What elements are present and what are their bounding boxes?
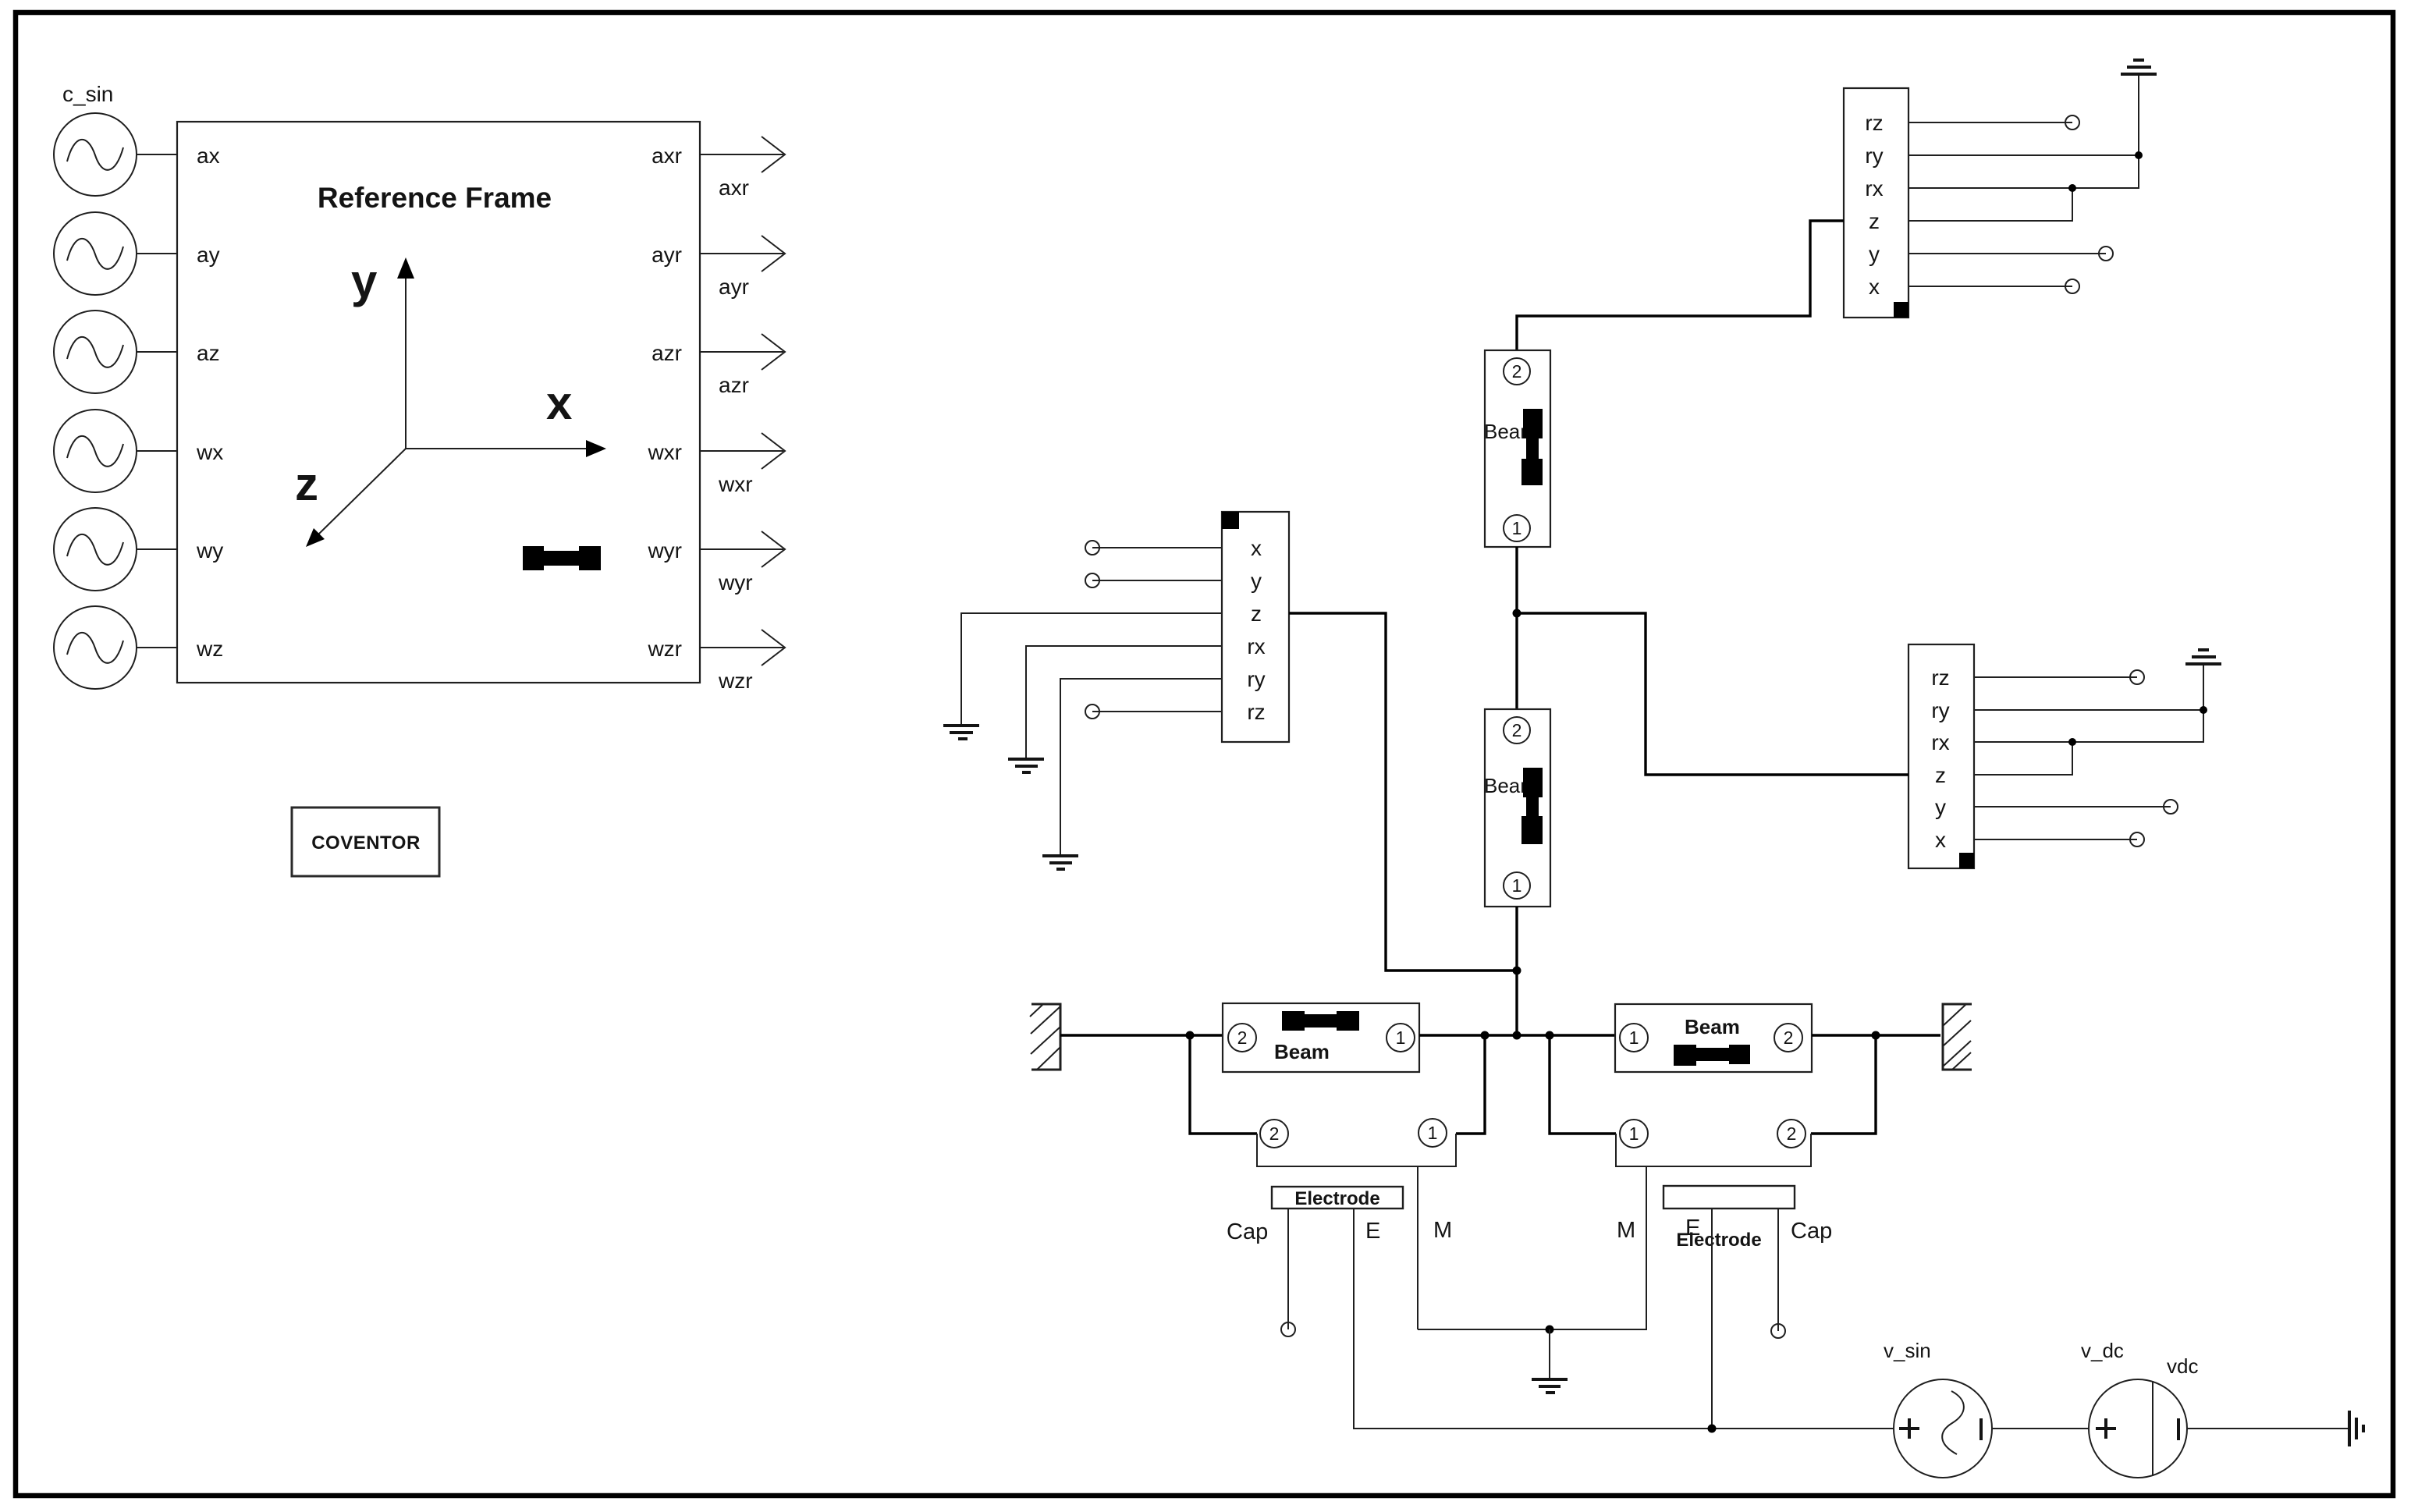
junction ry/rx U1 [2135,151,2143,159]
svg-text:z: z [1935,763,1946,787]
terminal y U3 [1085,573,1099,587]
svg-text:Beam: Beam [1685,1015,1740,1038]
wire anchor to beam B3 [1060,1034,1223,1036]
svg-text:2: 2 [1512,361,1522,382]
value label (redacted) B2 [1521,768,1543,844]
svg-text:wz: wz [196,637,223,661]
pin 1 beam B2 [1504,872,1530,899]
output arrow ayr [700,236,785,272]
wire U1 rx up to ry node [1908,76,2139,188]
svg-text:M: M [1433,1218,1452,1243]
wire E1 pin1 drop [1456,1035,1485,1134]
wire U3 z pin right to center node [1289,613,1517,971]
output arrow wxr [700,433,785,469]
pin 1 electrode E2 [1620,1120,1648,1148]
svg-text:2: 2 [1512,720,1522,740]
wire U1 x to terminal [1908,286,2072,287]
ground GND2 (inverted, top) [2185,650,2221,664]
electrode E1 movable plate [1257,1134,1456,1166]
junction E net [1708,1425,1717,1433]
junction z/rx U2 [2068,738,2076,746]
wire beam B1 top to U1 z pin [1517,221,1844,350]
wire ay source to Reference Frame [137,253,177,254]
svg-text:rz: rz [1931,665,1949,690]
svg-text:x: x [1935,828,1946,852]
svg-text:rz: rz [1247,700,1265,724]
svg-text:v_dc: v_dc [2081,1339,2124,1362]
source c_sin ax (sine source) [54,113,137,196]
wire U2 x to terminal [1974,839,2137,840]
marker square U2 [1959,853,1974,868]
value label (redacted) B4 [1674,1045,1750,1066]
junction node z-net [1513,967,1521,975]
wire U2 z up to rx [1974,742,2072,775]
ground GND1 (inverted, top) [2121,60,2157,74]
svg-text:wy: wy [196,538,223,563]
pin 2 electrode E1 [1260,1120,1288,1148]
svg-text:azr: azr [652,341,682,365]
source v_dc [2089,1379,2187,1478]
svg-text:y: y [351,255,378,307]
pin 1 beam B3 [1387,1024,1415,1052]
svg-text:wzr: wzr [647,637,682,661]
svg-text:2: 2 [1784,1028,1794,1048]
terminal y U2 [2164,800,2178,814]
svg-text:x: x [546,377,572,429]
wire beam B2 pin1 down to shuttle node [1515,907,1518,1035]
wire U3 ry to ground [1060,679,1222,855]
wire E1 pin2 drop [1190,1035,1257,1134]
output arrow axr [700,137,785,172]
wire E E1 down to vsource net [1354,1209,1894,1429]
svg-text:wzr: wzr [718,669,753,693]
pin 2 beam B1 [1504,358,1530,385]
svg-text:ry: ry [1247,667,1265,691]
svg-text:rz: rz [1865,111,1883,135]
electrode E2 fixed plate box [1663,1186,1795,1209]
junction electrode E1 pin1 drop [1481,1031,1490,1040]
svg-text:z: z [1869,209,1880,233]
pin 2 beam B4 [1774,1024,1802,1052]
wire U2 rz to terminal [1974,676,2137,678]
svg-text:az: az [197,341,220,365]
svg-text:wyr: wyr [647,538,682,563]
svg-text:y: y [1869,242,1880,266]
axis z (arrow down-left) [295,449,406,547]
terminal x U3 [1085,541,1099,555]
svg-text:ayr: ayr [652,243,682,267]
svg-text:1: 1 [1428,1123,1438,1143]
axis x (arrow right) [406,377,606,457]
marker square U3 [1222,512,1239,529]
wire U3 rz to terminal [1092,711,1222,712]
svg-text:wyr: wyr [718,570,753,595]
pin 1 electrode E1 [1418,1119,1447,1147]
electrode E2 movable plate [1616,1134,1811,1166]
terminal x U2 [2130,832,2144,847]
anchor right (fixed support) [1943,1004,1972,1070]
output arrow wyr [700,531,785,567]
svg-text:ay: ay [197,243,220,267]
wire v_dc to ground [2187,1428,2349,1429]
wire az source to Reference Frame [137,351,177,353]
source c_sin wz (sine source) [54,606,137,689]
svg-text:1: 1 [1629,1028,1639,1048]
bus block U1 (top right accel outputs) [1844,88,1908,318]
svg-text:Beam: Beam [1274,1040,1330,1063]
source c_sin wy (sine source) [54,508,137,591]
source c_sin ay (sine source) [54,212,137,295]
wire beam B1 pin1 to beam B2 pin2 [1515,547,1518,709]
ground GND5 [1042,856,1078,869]
ground GND6 [1532,1379,1568,1393]
source c_sin az (sine source) [54,311,137,393]
wire beam B3 pin1 to beam B4 pin1 (shuttle) [1419,1034,1615,1036]
terminal x U1 [2065,279,2079,293]
svg-text:ax: ax [197,144,220,168]
bus block U2 (right middle outputs) [1908,644,1974,868]
svg-text:rx: rx [1865,176,1883,201]
pin 1 beam B4 [1620,1024,1648,1052]
wire U3 z to ground [961,613,1222,725]
junction z/rx U1 [2068,184,2076,192]
svg-text:1: 1 [1396,1028,1406,1048]
wire U3 y to terminal [1092,580,1222,581]
terminal Cap E2 [1771,1324,1785,1338]
junction node m1 [1513,609,1521,618]
svg-text:E: E [1685,1216,1700,1240]
wire U1 y to terminal [1908,253,2106,254]
wire E2 pin2 drop [1811,1035,1876,1134]
value label (redacted) B3 [1282,1011,1359,1031]
wire U1 z up to rx [1908,188,2072,221]
ground GND4 [1008,759,1044,772]
wire Cap E2 [1777,1209,1779,1331]
pin 1 beam B1 [1504,515,1530,541]
block Reference Frame [177,122,700,683]
svg-text:1: 1 [1512,875,1522,896]
svg-text:x: x [1251,536,1262,560]
junction M net [1546,1326,1554,1334]
junction electrode E2 pin2 drop [1872,1031,1880,1040]
wire E2 pin1 drop [1550,1035,1616,1134]
pin 2 beam B3 [1228,1024,1256,1052]
svg-text:vdc: vdc [2167,1354,2198,1378]
value label (redacted) [523,546,601,570]
ground GND7 (rotated right) [2349,1411,2363,1446]
value label (redacted) B1 [1521,409,1543,485]
wire U3 x to terminal [1092,547,1222,548]
svg-text:2: 2 [1787,1123,1797,1144]
logo box COVENTOR [292,807,439,876]
wire E E2 down [1711,1209,1713,1429]
wire wy source to Reference Frame [137,548,177,550]
svg-text:x: x [1869,275,1880,299]
svg-text:Electrode: Electrode [1294,1188,1379,1209]
svg-text:2: 2 [1269,1123,1280,1144]
svg-text:v_sin: v_sin [1884,1339,1931,1362]
terminal rz U3 [1085,705,1099,719]
svg-text:ry: ry [1865,144,1883,168]
junction ry/rx U2 [2200,706,2207,714]
wire M E1 down [1417,1166,1418,1329]
svg-text:c_sin: c_sin [62,82,113,106]
junction electrode E1 pin2 drop [1186,1031,1195,1040]
beam B2 (vertical lower) [1485,709,1550,907]
axis y (arrow up) [351,255,414,449]
svg-text:z: z [1251,602,1262,626]
wire U2 rx up to ry node [1974,664,2203,742]
svg-text:Reference Frame: Reference Frame [318,182,552,214]
wire U2 y to terminal [1974,806,2171,807]
wire wx source to Reference Frame [137,450,177,452]
wire ax source to Reference Frame [137,154,177,155]
svg-text:rx: rx [1247,634,1265,658]
wire U1 rz to terminal [1908,122,2072,123]
svg-text:Cap: Cap [1791,1219,1832,1244]
svg-text:E: E [1365,1219,1380,1244]
wire beam B4 pin2 to right anchor [1812,1034,1940,1036]
wire node m1 to U2 z pin [1517,613,1908,775]
wire M E2 down and bridge [1418,1166,1646,1329]
anchor left (fixed support) [1030,1004,1060,1070]
marker square U1 [1894,302,1908,318]
svg-text:axr: axr [719,176,749,200]
wire wz source to Reference Frame [137,647,177,648]
beam B4 (horizontal right) [1615,1004,1812,1072]
junction electrode E2 pin1 drop [1546,1031,1554,1040]
ground GND3 [943,726,979,739]
svg-text:wxr: wxr [718,472,753,496]
wire U1 ry to ground node [1908,154,2139,156]
terminal rz U1 [2065,115,2079,130]
terminal y U1 [2099,247,2113,261]
svg-text:ayr: ayr [719,275,749,299]
bus block U3 (left displacement inputs) [1222,512,1289,742]
beam B1 (vertical top) [1485,350,1550,547]
svg-text:y: y [1935,795,1946,819]
svg-text:1: 1 [1512,518,1522,538]
wire U2 ry to ground node [1974,709,2203,711]
svg-text:Cap: Cap [1227,1219,1268,1244]
wire U3 rx to ground [1026,646,1222,758]
svg-text:rx: rx [1931,730,1949,754]
output arrow azr [700,334,785,370]
svg-text:azr: azr [719,373,749,397]
svg-text:1: 1 [1629,1123,1639,1144]
svg-text:y: y [1251,569,1262,593]
junction beams center [1513,1031,1521,1040]
svg-text:2: 2 [1237,1028,1248,1048]
svg-text:wx: wx [196,440,223,464]
svg-text:ry: ry [1931,698,1949,722]
svg-text:M: M [1617,1218,1635,1243]
wire M net to ground [1549,1329,1550,1378]
svg-text:z: z [295,458,318,510]
output arrow wzr [700,630,785,665]
source v_sin [1894,1379,1992,1478]
electrode E1 fixed plate box [1272,1187,1403,1209]
pin 2 electrode E2 [1777,1120,1806,1148]
svg-text:axr: axr [652,144,682,168]
svg-text:wxr: wxr [647,440,682,464]
source c_sin wx (sine source) [54,410,137,492]
terminal rz U2 [2130,670,2144,684]
svg-text:COVENTOR: COVENTOR [311,832,421,854]
terminal Cap E1 [1281,1322,1295,1336]
wire Cap E1 [1287,1209,1289,1329]
wire v_sin to v_dc [1992,1428,2089,1429]
pin 2 beam B2 [1504,717,1530,744]
beam B3 (horizontal left) [1223,1003,1419,1072]
